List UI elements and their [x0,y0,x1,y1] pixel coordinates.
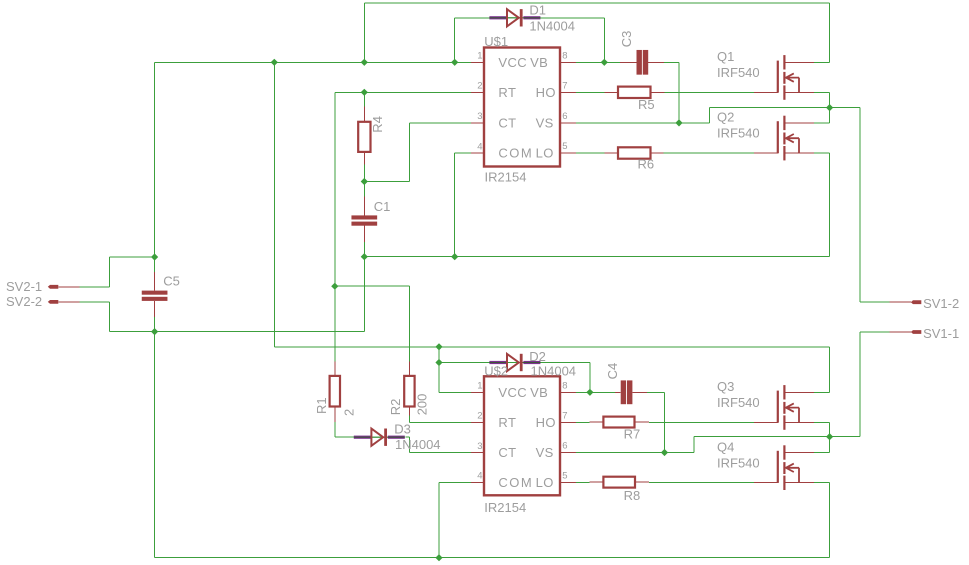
svg-text:2: 2 [342,409,357,416]
svg-text:U$2: U$2 [484,364,508,379]
svg-text:C4: C4 [605,363,620,380]
svg-text:5: 5 [562,141,567,152]
svg-text:7: 7 [562,410,567,421]
svg-text:R5: R5 [638,97,655,112]
svg-text:RT: RT [498,85,516,100]
svg-text:IRF540: IRF540 [717,126,760,141]
svg-text:VS: VS [536,445,554,460]
svg-text:Q1: Q1 [717,49,734,64]
svg-text:3: 3 [477,441,482,452]
svg-text:1: 1 [477,381,482,392]
svg-text:7: 7 [562,80,567,91]
svg-text:C1: C1 [374,199,391,214]
svg-text:CT: CT [498,445,516,460]
svg-text:IRF540: IRF540 [717,395,760,410]
svg-text:HO: HO [536,415,556,430]
svg-text:2: 2 [477,81,482,92]
svg-text:R2: R2 [388,399,403,416]
svg-text:COM: COM [498,475,533,490]
svg-text:VB: VB [530,55,548,70]
svg-text:U$1: U$1 [484,34,508,49]
svg-text:6: 6 [562,441,567,452]
svg-text:VS: VS [536,116,554,131]
svg-text:8: 8 [562,50,567,61]
svg-text:R8: R8 [624,488,641,503]
svg-text:4: 4 [477,141,482,152]
svg-text:1N4004: 1N4004 [395,437,441,452]
svg-text:VB: VB [530,385,548,400]
svg-text:IRF540: IRF540 [717,65,760,80]
svg-text:2: 2 [477,411,482,422]
svg-text:D2: D2 [529,349,546,364]
svg-text:1N4004: 1N4004 [531,364,577,379]
svg-text:CT: CT [498,116,516,131]
svg-text:LO: LO [536,475,554,490]
svg-text:4: 4 [477,471,482,482]
svg-text:8: 8 [562,380,567,391]
svg-text:D3: D3 [394,421,411,436]
svg-text:SV1-1: SV1-1 [923,326,959,341]
svg-text:SV2-1: SV2-1 [6,279,42,294]
svg-text:COM: COM [498,146,533,161]
svg-text:C5: C5 [163,273,180,288]
svg-text:VCC: VCC [498,55,527,70]
svg-text:SV2-2: SV2-2 [6,294,42,309]
svg-text:Q2: Q2 [717,110,734,125]
svg-text:VCC: VCC [498,385,527,400]
svg-text:200: 200 [414,394,429,416]
svg-text:C3: C3 [619,31,634,48]
svg-text:LO: LO [536,146,554,161]
svg-text:IR2154: IR2154 [485,169,527,184]
svg-text:Q4: Q4 [717,440,734,455]
svg-text:HO: HO [536,85,556,100]
svg-text:R1: R1 [314,397,329,414]
svg-text:RT: RT [498,415,516,430]
svg-text:R4: R4 [370,116,385,133]
svg-text:5: 5 [562,470,567,481]
svg-text:3: 3 [477,111,482,122]
svg-text:1N4004: 1N4004 [529,19,575,34]
svg-text:1: 1 [477,51,482,62]
svg-text:R7: R7 [624,427,641,442]
svg-text:6: 6 [562,111,567,122]
svg-text:IR2154: IR2154 [484,500,526,515]
svg-text:R6: R6 [638,157,655,172]
svg-text:IRF540: IRF540 [717,456,760,471]
svg-text:SV1-2: SV1-2 [923,296,959,311]
svg-text:D1: D1 [529,2,546,17]
svg-text:Q3: Q3 [717,379,734,394]
